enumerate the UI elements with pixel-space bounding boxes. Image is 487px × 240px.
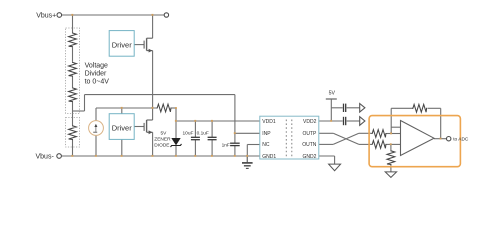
svg-text:1nF: 1nF [222, 142, 230, 148]
svg-text:0.1uF: 0.1uF [197, 130, 209, 136]
svg-text:NC: NC [262, 142, 270, 148]
svg-text:ZENER: ZENER [154, 136, 171, 142]
svg-text:OUTP: OUTP [303, 131, 318, 137]
svg-text:5V: 5V [329, 91, 336, 97]
svg-text:VDD2: VDD2 [303, 119, 317, 125]
svg-text:Voltage: Voltage [85, 63, 108, 70]
svg-text:Vbus+: Vbus+ [36, 13, 56, 20]
svg-text:Driver: Driver [112, 124, 133, 133]
svg-text:Divider: Divider [85, 71, 107, 78]
svg-text:Driver: Driver [112, 40, 133, 49]
svg-text:to 0~4V: to 0~4V [85, 79, 110, 86]
svg-text:OUTN: OUTN [302, 142, 317, 148]
svg-text:INP: INP [262, 131, 271, 137]
svg-text:GND1: GND1 [262, 154, 276, 160]
svg-text:Vbus-: Vbus- [36, 153, 55, 160]
svg-text:DIODE: DIODE [154, 142, 169, 148]
svg-text:VDD1: VDD1 [262, 119, 276, 125]
svg-text:5V: 5V [161, 131, 168, 137]
svg-text:10uF: 10uF [183, 130, 194, 136]
svg-text:to ADC: to ADC [453, 137, 469, 143]
svg-text:GND2: GND2 [302, 154, 316, 160]
